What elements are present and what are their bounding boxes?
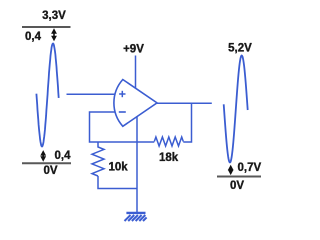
wire op-amp V- pin to ground bbox=[136, 117, 138, 212]
node 0V level line (output) bbox=[217, 176, 261, 178]
svg-text:0,4: 0,4 bbox=[25, 31, 42, 43]
input sine wave Vin bbox=[36, 44, 58, 147]
op-amp U1 bbox=[114, 80, 157, 127]
resistor R1 10k (vertical) bbox=[92, 142, 104, 176]
resistor R2 18k (horizontal, feedback) bbox=[154, 137, 183, 146]
svg-text:10k: 10k bbox=[109, 162, 129, 174]
wire R1 bottom to ground line bbox=[98, 176, 137, 189]
dimension arrow right 0,7V bbox=[228, 165, 234, 175]
wire R2 right end up to output bbox=[183, 103, 191, 142]
wire +9V supply to op-amp V+ pin bbox=[135, 56, 137, 89]
wire inverting input to feedback node bbox=[90, 112, 155, 142]
svg-text:18k: 18k bbox=[159, 152, 179, 164]
svg-text:0V: 0V bbox=[43, 165, 57, 177]
svg-text:+9V: +9V bbox=[123, 44, 144, 56]
svg-text:0,4: 0,4 bbox=[55, 150, 72, 162]
svg-text:0V: 0V bbox=[230, 180, 244, 192]
svg-text:5,2V: 5,2V bbox=[228, 43, 252, 55]
ground bbox=[125, 213, 147, 221]
wire input to op-amp non-inverting input bbox=[67, 93, 115, 95]
node 0V level line (input) bbox=[22, 162, 71, 164]
svg-text:3,3V: 3,3V bbox=[42, 10, 66, 22]
dimension arrow top-left 0,4 bbox=[51, 28, 57, 41]
output sine wave Vout bbox=[224, 56, 248, 163]
dimension arrow bottom-left 0,4 bbox=[40, 150, 46, 162]
op-amp U1 minus input marking bbox=[119, 111, 126, 113]
svg-text:0,7V: 0,7V bbox=[238, 162, 262, 174]
node 3.3V level line bbox=[22, 26, 71, 28]
op-amp U1 plus input marking bbox=[119, 91, 125, 97]
wire op-amp output bbox=[157, 102, 212, 104]
